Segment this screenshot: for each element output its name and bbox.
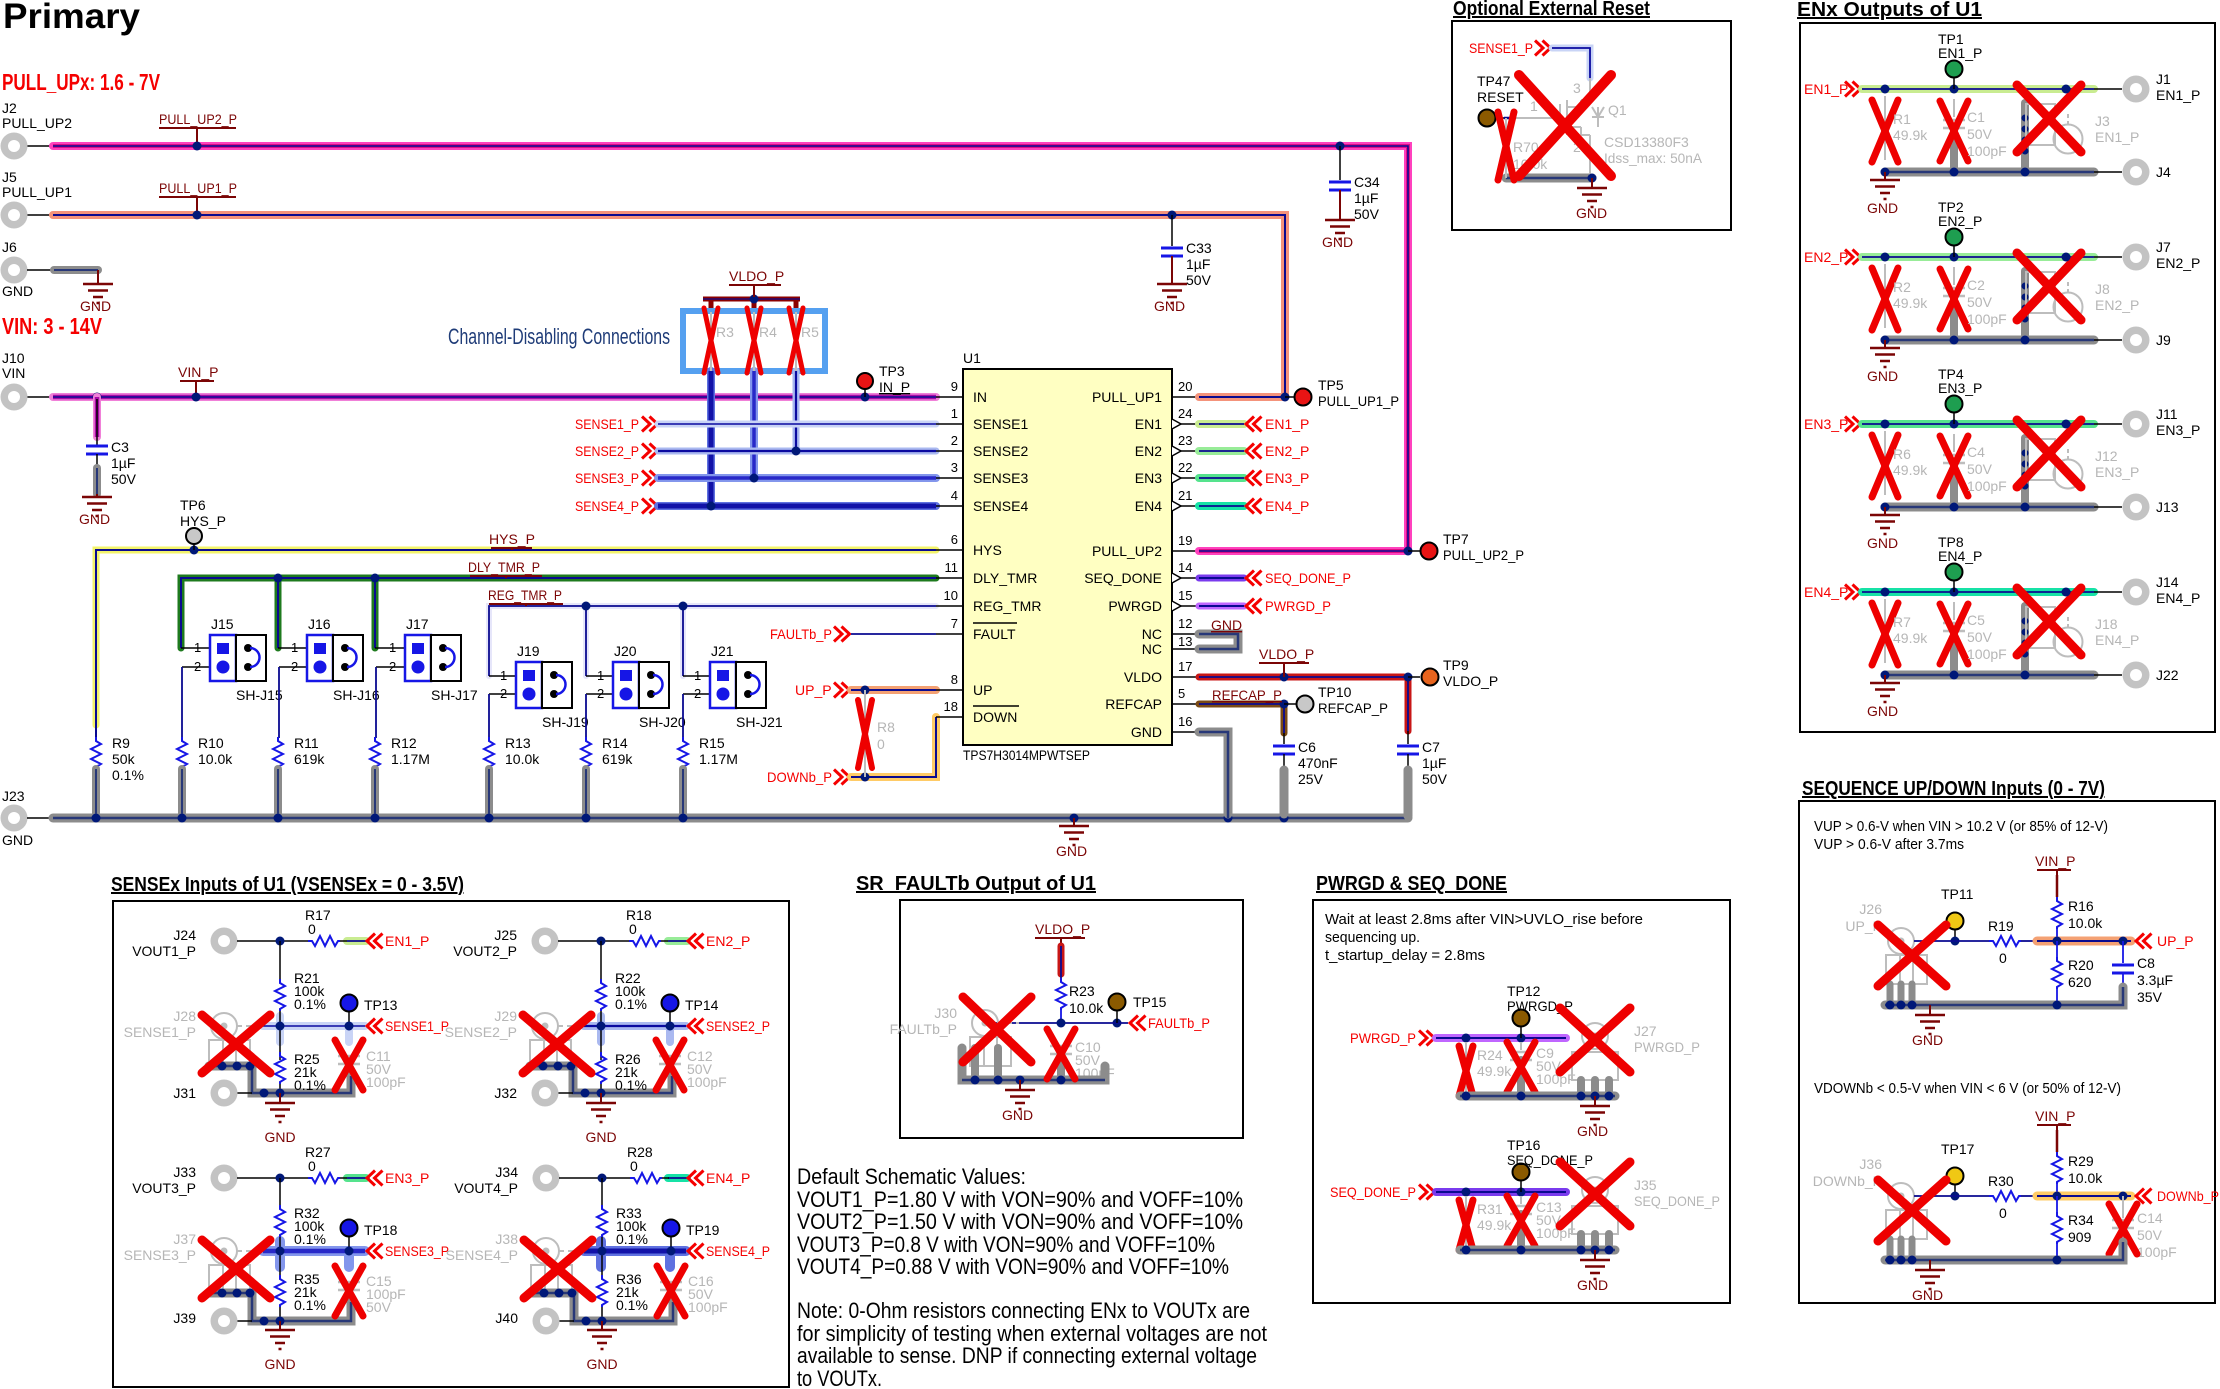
resistor R23 xyxy=(1056,978,1104,1023)
svg-text:J25: J25 xyxy=(494,927,517,943)
svg-text:2: 2 xyxy=(951,433,958,448)
svg-text:50V: 50V xyxy=(2137,1227,2163,1243)
svg-text:100pF: 100pF xyxy=(1967,143,2007,159)
connector J36 xyxy=(1813,1156,1935,1260)
svg-text:Wait at least 2.8ms after VIN>: Wait at least 2.8ms after VIN>UVLO_rise … xyxy=(1325,911,1643,928)
wire PULL_UP2_P xyxy=(27,146,1408,551)
svg-text:2: 2 xyxy=(389,659,396,674)
resistor R4 xyxy=(747,308,777,373)
svg-text:14: 14 xyxy=(1178,560,1192,575)
svg-text:2: 2 xyxy=(500,686,507,701)
connector J18 labels xyxy=(2095,616,2139,648)
svg-text:10.0k: 10.0k xyxy=(2068,1170,2103,1186)
svg-text:J27: J27 xyxy=(1634,1023,1657,1039)
port EN3_P input xyxy=(1804,416,1861,432)
resistor R7 labels xyxy=(1893,614,1928,646)
wire SENSE1_P net sense1 xyxy=(263,1016,449,1042)
svg-text:GND: GND xyxy=(1056,843,1087,859)
ground symbol below C34 xyxy=(1322,220,1355,250)
svg-text:VOUT3_P: VOUT3_P xyxy=(132,1180,196,1196)
svg-text:HYS_P: HYS_P xyxy=(489,531,535,547)
wire SENSE1_P to Q1 xyxy=(1552,48,1590,104)
svg-text:GND: GND xyxy=(1154,298,1185,314)
svg-text:IN: IN xyxy=(973,389,987,405)
connector J7 labels xyxy=(2156,239,2200,271)
svg-text:REG_TMR_P: REG_TMR_P xyxy=(488,587,562,603)
svg-text:0: 0 xyxy=(630,1158,638,1174)
block EN2 DNP parts R2 C2 J8 xyxy=(1867,229,2150,385)
svg-text:EN4_P: EN4_P xyxy=(1804,584,1848,600)
wire SENSE2_P xyxy=(658,447,936,456)
svg-text:R4: R4 xyxy=(759,324,777,340)
svg-text:R30: R30 xyxy=(1988,1173,2014,1189)
svg-text:J2: J2 xyxy=(2,100,17,116)
svg-text:CSD13380F3: CSD13380F3 xyxy=(1604,134,1689,150)
capacitor C5 labels xyxy=(1967,612,2007,662)
svg-text:0: 0 xyxy=(1999,1205,2007,1221)
block VOUT3 J33 R27 R32 R35 C15 J37 J39 TP18 xyxy=(202,1165,363,1373)
svg-text:C7: C7 xyxy=(1422,739,1440,755)
wire SENSE2_P net sense2 xyxy=(584,1016,770,1042)
port SENSE2_P xyxy=(575,443,658,459)
svg-text:J32: J32 xyxy=(494,1085,517,1101)
svg-text:1: 1 xyxy=(291,640,298,655)
svg-text:SENSE1_P: SENSE1_P xyxy=(1469,40,1533,56)
resistor R70 xyxy=(1510,98,1560,172)
net label VIN_P down xyxy=(2035,1108,2075,1130)
svg-text:SENSE2_P: SENSE2_P xyxy=(445,1024,517,1040)
net label PULL_UP2_P xyxy=(159,111,237,151)
svg-text:SENSE1_P: SENSE1_P xyxy=(575,416,639,432)
svg-text:ENx Outputs of U1: ENx Outputs of U1 xyxy=(1797,0,1982,21)
svg-text:J18: J18 xyxy=(2095,616,2118,632)
port EN4_P input xyxy=(1804,584,1861,600)
svg-text:0.1%: 0.1% xyxy=(616,1297,648,1313)
wire EN4 pin21 xyxy=(1199,498,1309,514)
svg-text:21: 21 xyxy=(1178,488,1192,503)
wire SEQ_DONE_P net xyxy=(1436,1188,1566,1197)
svg-text:SH-J19: SH-J19 xyxy=(542,714,589,730)
svg-text:EN2_P: EN2_P xyxy=(706,933,750,949)
svg-text:J15: J15 xyxy=(211,616,234,632)
svg-text:EN1_P: EN1_P xyxy=(385,933,429,949)
svg-text:J36: J36 xyxy=(1859,1156,1882,1172)
svg-text:PWRGD: PWRGD xyxy=(1108,598,1162,614)
svg-text:FAULTb_P: FAULTb_P xyxy=(770,626,832,642)
svg-text:10: 10 xyxy=(944,588,958,603)
section SEQUENCE UP/DOWN Inputs xyxy=(1799,778,2215,1303)
wire SENSE3_P net sense3 xyxy=(263,1241,686,1267)
svg-text:NC: NC xyxy=(1142,641,1162,657)
wire VLDO_P pin17 xyxy=(1199,673,1420,732)
svg-text:J34: J34 xyxy=(495,1164,518,1180)
svg-text:R29: R29 xyxy=(2068,1153,2094,1169)
testpoint TP15 xyxy=(1109,994,1167,1024)
svg-text:R9: R9 xyxy=(112,735,130,751)
wire SENSE3_P xyxy=(658,474,936,483)
svg-text:PULL_UP1_P: PULL_UP1_P xyxy=(159,180,237,196)
svg-text:EN3_P: EN3_P xyxy=(2095,464,2139,480)
block EN3 DNP parts R6 C4 J12 xyxy=(1867,396,2150,552)
wire PULL_UP1 pin20 xyxy=(1199,393,1295,402)
svg-text:1µF: 1µF xyxy=(111,455,135,471)
svg-text:J13: J13 xyxy=(2156,499,2179,515)
svg-text:18: 18 xyxy=(944,699,958,714)
svg-text:R15: R15 xyxy=(699,735,725,751)
svg-text:0.1%: 0.1% xyxy=(615,1077,647,1093)
net label VLDO_P faultb xyxy=(1035,921,1090,944)
svg-text:R10: R10 xyxy=(198,735,224,751)
connector J30 xyxy=(890,1005,1019,1066)
svg-text:TP6: TP6 xyxy=(180,497,206,513)
svg-text:3: 3 xyxy=(1573,80,1581,96)
svg-text:C6: C6 xyxy=(1298,739,1316,755)
svg-text:EN4_P: EN4_P xyxy=(1265,498,1309,514)
wire SENSE4_P xyxy=(658,502,936,511)
net label VIN_P up xyxy=(2035,853,2075,875)
svg-text:J8: J8 xyxy=(2095,281,2110,297)
wire DLY_TMR_P xyxy=(181,574,936,649)
svg-text:50V: 50V xyxy=(1967,461,1993,477)
svg-text:EN2_P: EN2_P xyxy=(1938,213,1982,229)
resistor R11 xyxy=(273,735,325,818)
svg-text:GND: GND xyxy=(1002,1107,1033,1123)
resistor R13 xyxy=(484,735,540,818)
svg-text:50V: 50V xyxy=(1354,206,1380,222)
svg-text:4: 4 xyxy=(951,488,958,503)
port UP_P xyxy=(795,682,850,698)
svg-text:2: 2 xyxy=(291,659,298,674)
svg-text:PULL_UP2: PULL_UP2 xyxy=(2,115,72,131)
svg-text:VLDO_P: VLDO_P xyxy=(1259,646,1314,662)
svg-text:11: 11 xyxy=(945,560,959,575)
U1 output pin wedges xyxy=(1172,419,1181,611)
resistor R19 xyxy=(1988,918,2021,966)
ground symbol below C3 xyxy=(79,494,112,527)
svg-text:SH-J15: SH-J15 xyxy=(236,687,283,703)
DNP X over J26 xyxy=(1878,925,1946,986)
svg-text:GND: GND xyxy=(1577,1123,1608,1139)
svg-text:1µF: 1µF xyxy=(1422,755,1446,771)
svg-text:J1: J1 xyxy=(2156,71,2171,87)
svg-text:SR_FAULTb Output of U1: SR_FAULTb Output of U1 xyxy=(856,873,1096,895)
svg-text:24: 24 xyxy=(1178,406,1192,421)
wire down ground bus xyxy=(1885,1242,2123,1265)
wire up ground bus xyxy=(1885,987,2123,1010)
svg-text:VLDO_P: VLDO_P xyxy=(729,268,784,284)
section ENx Outputs of U1 xyxy=(1797,0,2215,732)
svg-text:HYS: HYS xyxy=(973,542,1002,558)
svg-text:J37: J37 xyxy=(173,1231,196,1247)
svg-text:SEQ_DONE_P: SEQ_DONE_P xyxy=(1265,570,1351,586)
svg-text:0.1%: 0.1% xyxy=(615,996,647,1012)
svg-text:J10: J10 xyxy=(2,350,25,366)
svg-text:3: 3 xyxy=(951,460,958,475)
svg-text:49.9k: 49.9k xyxy=(1893,462,1928,478)
testpoint TP7 xyxy=(1421,531,1525,563)
svg-text:J39: J39 xyxy=(173,1310,196,1326)
wire SEQ_DONE pin14 xyxy=(1199,570,1351,586)
svg-text:NC: NC xyxy=(1142,626,1162,642)
svg-text:SENSE1_P: SENSE1_P xyxy=(124,1024,196,1040)
svg-text:1: 1 xyxy=(389,640,396,655)
svg-text:R6: R6 xyxy=(1893,446,1911,462)
resistor R29 xyxy=(2052,1152,2103,1196)
svg-text:R13: R13 xyxy=(505,735,531,751)
svg-text:50V: 50V xyxy=(1967,629,1993,645)
svg-text:EN2: EN2 xyxy=(1135,443,1162,459)
svg-text:SENSE4_P: SENSE4_P xyxy=(706,1243,770,1259)
block VOUT1 J24 R17 R21 R25 C11 J28 J31 TP13 xyxy=(202,928,363,1146)
section SR_FAULTb Output of U1 xyxy=(856,873,1243,1138)
connector J12 labels xyxy=(2095,448,2139,480)
svg-text:SH-J16: SH-J16 xyxy=(333,687,380,703)
capacitor C10 xyxy=(1050,1039,1115,1081)
svg-text:16: 16 xyxy=(1178,714,1192,729)
svg-text:Optional External Reset: Optional External Reset xyxy=(1453,0,1650,20)
svg-text:EN4_P: EN4_P xyxy=(2156,590,2200,606)
svg-text:R7: R7 xyxy=(1893,614,1911,630)
svg-text:J16: J16 xyxy=(308,616,331,632)
resistor R6 labels xyxy=(1893,446,1928,478)
testpoint TP4 labels xyxy=(1938,366,1982,396)
svg-text:GND: GND xyxy=(1576,205,1607,221)
wire FAULTb_P net xyxy=(985,1015,1210,1031)
svg-text:SENSE1_P: SENSE1_P xyxy=(385,1018,449,1034)
svg-text:EN4_P: EN4_P xyxy=(706,1170,750,1186)
block EN1 DNP parts R1 C1 J3 xyxy=(1867,61,2150,217)
op-amp U1 TPS7H3014MPWTSEP xyxy=(963,350,1172,763)
svg-text:VUP > 0.6-V after 3.7ms: VUP > 0.6-V after 3.7ms xyxy=(1814,836,1964,853)
svg-text:PULL_UP2_P: PULL_UP2_P xyxy=(159,111,237,127)
wire EN1_P net xyxy=(1862,85,2122,93)
svg-text:EN2_P: EN2_P xyxy=(1804,249,1848,265)
resistor R31 xyxy=(1459,1196,1512,1250)
svg-text:0: 0 xyxy=(1999,950,2007,966)
svg-text:10.0k: 10.0k xyxy=(505,751,540,767)
svg-text:Primary: Primary xyxy=(3,0,141,36)
wire DOWNb_P xyxy=(851,717,936,782)
svg-text:R31: R31 xyxy=(1477,1201,1503,1217)
ground symbol at J6 xyxy=(80,284,113,314)
svg-text:J31: J31 xyxy=(173,1085,196,1101)
svg-text:J30: J30 xyxy=(934,1005,957,1021)
svg-text:PWRGD & SEQ_DONE: PWRGD & SEQ_DONE xyxy=(1316,873,1507,895)
DNP X over Q1 xyxy=(1519,75,1611,176)
wire SENSE4_P net sense4 xyxy=(584,1241,770,1267)
svg-text:C8: C8 xyxy=(2137,955,2155,971)
svg-text:R12: R12 xyxy=(391,735,417,751)
svg-text:PULL_UP2: PULL_UP2 xyxy=(1092,543,1162,559)
svg-text:R2: R2 xyxy=(1893,279,1911,295)
svg-text:REFCAP_P: REFCAP_P xyxy=(1212,687,1282,703)
svg-text:100pF: 100pF xyxy=(2137,1244,2177,1260)
connector J27 xyxy=(1572,1023,1700,1096)
DNP X over J35 xyxy=(1560,1162,1630,1226)
svg-text:J20: J20 xyxy=(614,643,637,659)
svg-text:5: 5 xyxy=(1178,686,1185,701)
svg-text:VUP > 0.6-V when VIN > 10.2 V: VUP > 0.6-V when VIN > 10.2 V (or 85% of… xyxy=(1814,818,2108,835)
svg-text:C14: C14 xyxy=(2137,1210,2163,1226)
svg-text:25V: 25V xyxy=(1298,771,1324,787)
resistor R14 xyxy=(581,735,633,818)
svg-text:PWRGD_P: PWRGD_P xyxy=(1634,1039,1700,1055)
svg-text:C33: C33 xyxy=(1186,240,1212,256)
ground symbol seqdone xyxy=(1577,1250,1610,1293)
jumper J21 xyxy=(683,643,783,738)
svg-text:1: 1 xyxy=(194,640,201,655)
section PWRGD and SEQ_DONE xyxy=(1313,873,1730,1303)
svg-text:UP_P: UP_P xyxy=(2157,933,2194,949)
svg-text:50V: 50V xyxy=(1422,771,1448,787)
wire VIN_P stub up xyxy=(2056,875,2059,897)
svg-text:50k: 50k xyxy=(112,751,136,767)
net label DLY_TMR_P xyxy=(468,559,542,578)
port SENSE4_P xyxy=(575,498,658,514)
resistor R9 xyxy=(91,735,144,818)
svg-text:SENSE1: SENSE1 xyxy=(973,416,1028,432)
port SENSE3_P xyxy=(575,470,658,486)
port DOWNb_P xyxy=(767,769,850,785)
wire PWRGD pin15 xyxy=(1199,598,1331,614)
svg-text:49.9k: 49.9k xyxy=(1893,295,1928,311)
svg-text:to VOUTx.: to VOUTx. xyxy=(797,1366,882,1389)
connector J10 xyxy=(1,350,28,411)
svg-text:SENSE4: SENSE4 xyxy=(973,498,1028,514)
testpoint TP10 xyxy=(1297,684,1389,716)
svg-text:SH-J21: SH-J21 xyxy=(736,714,783,730)
wire VLDO_P bus over R3 R4 R5 xyxy=(703,295,800,313)
svg-text:2: 2 xyxy=(694,686,701,701)
svg-text:DOWNb_P: DOWNb_P xyxy=(767,769,832,785)
svg-text:FAULTb_P: FAULTb_P xyxy=(1148,1015,1210,1031)
svg-text:9: 9 xyxy=(951,379,958,394)
svg-text:VIN_P: VIN_P xyxy=(2035,1108,2075,1124)
ground symbol pwrgd xyxy=(1577,1096,1610,1139)
connector J3 labels xyxy=(2095,113,2139,145)
capacitor C3 xyxy=(86,393,137,495)
svg-text:3.3µF: 3.3µF xyxy=(2137,972,2173,988)
svg-text:EN1_P: EN1_P xyxy=(1804,81,1848,97)
svg-text:EN3_P: EN3_P xyxy=(1265,470,1309,486)
wire VIN_P xyxy=(27,396,936,398)
svg-text:J7: J7 xyxy=(2156,239,2171,255)
svg-text:SEQ_DONE_P: SEQ_DONE_P xyxy=(1330,1184,1416,1200)
block VOUT4 J34 R28 R33 R36 C16 J38 J40 TP19 xyxy=(524,1165,685,1373)
svg-text:100pF: 100pF xyxy=(1967,478,2007,494)
svg-text:SENSE2: SENSE2 xyxy=(973,443,1028,459)
text Note 0-Ohm resistors xyxy=(797,1298,1267,1389)
svg-text:49.9k: 49.9k xyxy=(1893,127,1928,143)
svg-text:J35: J35 xyxy=(1634,1177,1657,1193)
svg-text:EN1_P: EN1_P xyxy=(2095,129,2139,145)
svg-text:DOWNb_P: DOWNb_P xyxy=(2157,1188,2219,1204)
svg-text:DOWN: DOWN xyxy=(973,709,1017,725)
svg-text:23: 23 xyxy=(1178,433,1192,448)
svg-text:19: 19 xyxy=(1178,533,1192,548)
ground symbol main bus xyxy=(1056,818,1089,859)
jumper J17 xyxy=(375,616,478,738)
svg-text:t_startup_delay = 2.8ms: t_startup_delay = 2.8ms xyxy=(1325,947,1485,964)
svg-text:VIN_P: VIN_P xyxy=(2035,853,2075,869)
resistor R20 xyxy=(2052,941,2094,1005)
svg-text:TP12: TP12 xyxy=(1507,983,1541,999)
resistor R3 xyxy=(704,308,734,373)
testpoint TP16 xyxy=(1507,1137,1593,1192)
svg-text:REFCAP: REFCAP xyxy=(1105,696,1162,712)
svg-text:TP19: TP19 xyxy=(686,1222,720,1238)
ground symbol faultb xyxy=(1002,1080,1035,1123)
svg-text:RESET: RESET xyxy=(1477,89,1524,105)
DNP X over J30 xyxy=(963,997,1031,1062)
resistor R8 xyxy=(858,690,895,777)
svg-text:2: 2 xyxy=(194,659,201,674)
svg-text:GND: GND xyxy=(1912,1287,1943,1303)
svg-text:PULL_UPx: 1.6 - 7V: PULL_UPx: 1.6 - 7V xyxy=(2,69,160,95)
resistor R5 xyxy=(789,308,819,373)
connector J11 labels xyxy=(2156,406,2200,438)
svg-text:0: 0 xyxy=(629,921,637,937)
connector J14 labels xyxy=(2156,574,2200,606)
svg-text:R3: R3 xyxy=(716,324,734,340)
svg-text:R19: R19 xyxy=(1988,918,2014,934)
resistor R10 xyxy=(177,735,233,818)
resistor R30 xyxy=(1988,1173,2021,1221)
svg-text:0: 0 xyxy=(308,1158,316,1174)
svg-text:SENSE3: SENSE3 xyxy=(973,470,1028,486)
svg-text:17: 17 xyxy=(1178,659,1192,674)
svg-text:SENSE2_P: SENSE2_P xyxy=(575,443,639,459)
svg-text:TPS7H3014MPWTSEP: TPS7H3014MPWTSEP xyxy=(963,747,1090,763)
wire EN3 pin22 xyxy=(1199,470,1309,486)
text VUP conditions xyxy=(1814,818,2108,853)
svg-text:6: 6 xyxy=(951,532,958,547)
svg-text:J19: J19 xyxy=(517,643,540,659)
svg-text:VLDO: VLDO xyxy=(1124,669,1162,685)
svg-text:PWRGD_P: PWRGD_P xyxy=(1265,598,1331,614)
svg-text:PWRGD_P: PWRGD_P xyxy=(1350,1030,1416,1046)
svg-text:Q1: Q1 xyxy=(1608,102,1627,118)
svg-text:GND: GND xyxy=(79,511,110,527)
wire reset ground bus xyxy=(1506,118,1597,183)
svg-text:GND: GND xyxy=(2,832,33,848)
svg-text:EN3_P: EN3_P xyxy=(2156,422,2200,438)
svg-text:100pF: 100pF xyxy=(687,1074,727,1090)
wire GND pin16 xyxy=(1199,732,1228,818)
svg-text:R11: R11 xyxy=(294,735,319,751)
connector J6 with ground xyxy=(1,239,99,299)
net label REG_TMR_P xyxy=(488,587,563,606)
text wait note xyxy=(1325,911,1643,964)
wire EN4_P tap VOUT4 xyxy=(668,1170,750,1186)
svg-text:VIN_P: VIN_P xyxy=(178,364,218,380)
wire REFCAP_P pin5 xyxy=(1199,700,1296,734)
capacitor C33 xyxy=(1161,211,1212,289)
resistor R16 xyxy=(2052,897,2103,941)
svg-text:TP3: TP3 xyxy=(879,363,905,379)
svg-text:UP_P: UP_P xyxy=(795,682,832,698)
svg-text:0: 0 xyxy=(877,736,885,752)
svg-text:VOUT4_P: VOUT4_P xyxy=(454,1180,518,1196)
block EN4 DNP parts R7 C5 J18 xyxy=(1867,564,2150,720)
svg-text:GND: GND xyxy=(1912,1032,1943,1048)
svg-text:J23: J23 xyxy=(2,788,25,804)
svg-text:35V: 35V xyxy=(2137,989,2163,1005)
svg-text:REG_TMR: REG_TMR xyxy=(973,598,1041,614)
capacitor C6 xyxy=(1273,733,1338,814)
svg-text:EN3_P: EN3_P xyxy=(1938,380,1982,396)
svg-text:Channel-Disabling Connections: Channel-Disabling Connections xyxy=(448,324,670,349)
